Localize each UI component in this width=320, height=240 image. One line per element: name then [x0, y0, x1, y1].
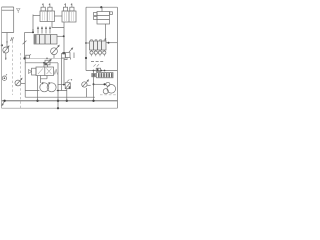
wire vertical to y97: [86, 88, 88, 97]
wire y84.3: [94, 83, 105, 85]
valve C left pilots: [94, 13, 98, 16]
junction dot: [43, 62, 45, 64]
wire manifold outlet: [57, 35, 64, 37]
pilot valve V2 cluster: [62, 54, 66, 59]
manifold M1 hatched block: [34, 35, 57, 45]
manifold M1 dark end cap: [34, 35, 37, 45]
valve C right stub: [110, 12, 113, 15]
junction dot bottom: [57, 107, 59, 109]
wire manifold inlet horizontal: [25, 32, 35, 34]
tick at x64: [64, 59, 68, 61]
tower A interior stripes: [42, 12, 52, 21]
junction dot: [63, 84, 65, 86]
junction dot: [93, 83, 95, 85]
manifold M2 top caps: [91, 40, 106, 41]
wire right border: [116, 7, 118, 108]
dashes below M2: [91, 61, 104, 63]
gauge G3: [82, 82, 87, 87]
wire V1 top stub: [44, 63, 48, 67]
wire below P0: [5, 53, 7, 60]
valve mark on branch: [23, 41, 27, 45]
wire tower A inlet: [33, 15, 40, 17]
motor M2 large circle: [107, 85, 116, 94]
wire vertical x93.5: [93, 71, 95, 101]
wire right mid line y70.5: [86, 70, 117, 72]
junction blob on left border: [1, 44, 3, 46]
pump P1: [40, 83, 49, 92]
pump P3 circle: [103, 89, 108, 94]
tank outlet vertical: [6, 33, 8, 48]
manifold M2 hatched block: [90, 41, 107, 50]
valve C body: [97, 12, 110, 25]
wire y97 horizontal: [25, 96, 95, 98]
pump P0 circle: [3, 47, 9, 53]
motor M0 circle: [2, 76, 6, 80]
junction dot: [104, 83, 106, 85]
wire vertical x61.5: [61, 58, 63, 91]
wire V2 right drop: [73, 53, 75, 59]
wire bottom tank line: [2, 107, 118, 109]
gauge G2: [15, 80, 21, 86]
gauge G1: [51, 48, 58, 55]
arrowhead down: [105, 38, 107, 40]
V1 spring: [54, 69, 58, 75]
junction dot right loop: [85, 42, 87, 44]
junction dot: [100, 6, 102, 8]
wire right loop vertical: [85, 7, 87, 70]
wire valve C top stub: [101, 7, 103, 11]
valve HX on line: [96, 68, 100, 71]
wire mid bus: [25, 57, 64, 59]
dryer tower A: [40, 11, 55, 22]
arrowhead into manifold: [32, 30, 34, 32]
motor M1: [47, 83, 56, 92]
wire V1 bottom stubs: [41, 76, 48, 84]
junction dot: [57, 100, 59, 102]
junction dot on bus: [92, 100, 94, 102]
junction dot: [63, 35, 65, 37]
drain arrow between buses: [2, 102, 5, 106]
control box B2: [26, 55, 30, 58]
faint dashed line lower right: [100, 94, 117, 96]
wire vertical x58: [57, 63, 59, 108]
junction dot: [108, 42, 110, 44]
cooler banded block: [97, 73, 114, 78]
wire vertical x25.2: [24, 58, 26, 97]
bottom bus: [2, 100, 118, 102]
squiggle label: [11, 37, 14, 41]
main valve V1: [36, 67, 54, 76]
tank T1 level line: [2, 9, 14, 11]
junction dot: [32, 31, 34, 33]
wire tower A drop: [32, 15, 34, 32]
junction dot: [100, 70, 102, 72]
wire pilot line y63: [25, 62, 58, 64]
level indicator LG1: [17, 9, 21, 14]
junction dot: [93, 70, 95, 72]
tank T1: [2, 7, 14, 33]
wire y90.5 horizontal: [25, 90, 66, 92]
dryer tower B: [62, 11, 76, 22]
junction dot: [46, 58, 48, 60]
junction dot: [3, 100, 5, 102]
junction dot on x86: [85, 57, 87, 59]
tower B top caps: [63, 7, 67, 11]
wire branch to manifold M2: [86, 42, 90, 44]
drain circles under M2: [91, 50, 93, 51]
V1 pilot triangle: [29, 70, 32, 74]
wire vertical x66.5: [66, 89, 68, 101]
tower B vent stubs: [65, 4, 72, 8]
junction dot: [66, 100, 68, 102]
tower B interior stripes: [64, 12, 73, 21]
wire valve C bottom drop: [105, 24, 107, 41]
pump P2 small circle: [106, 82, 110, 86]
solenoid box V3: [45, 60, 50, 65]
junction dot: [104, 70, 106, 72]
wire y84.6 link: [58, 84, 66, 86]
solenoid box on drop: [92, 74, 96, 77]
arrows into manifold M1: [37, 27, 39, 34]
wire A bottom elbow: [52, 22, 64, 28]
wire long vertical from tower B: [63, 22, 65, 53]
arrowhead down: [6, 42, 8, 44]
manifold M2 outlet line: [106, 42, 117, 44]
wire branch down left: [24, 33, 26, 59]
junction blob: [23, 57, 25, 59]
junction dot: [57, 90, 59, 92]
wire left border: [1, 7, 3, 108]
wire vertical x64 lower: [63, 58, 65, 85]
wire vertical x37.5: [37, 76, 39, 101]
drain ticks below circles: [92, 54, 105, 56]
dash-dot boundary 1: [12, 41, 14, 95]
wire top right bus: [86, 6, 117, 8]
junction dot: [36, 100, 38, 102]
V1 left pilot box: [32, 68, 37, 75]
tower A vent stubs: [42, 4, 50, 8]
filter F2: [65, 83, 70, 89]
tower A top caps: [41, 7, 45, 11]
arrowhead down: [5, 58, 7, 60]
dash-dot boundary 2: [20, 53, 22, 108]
wire A to B connector: [55, 15, 63, 17]
